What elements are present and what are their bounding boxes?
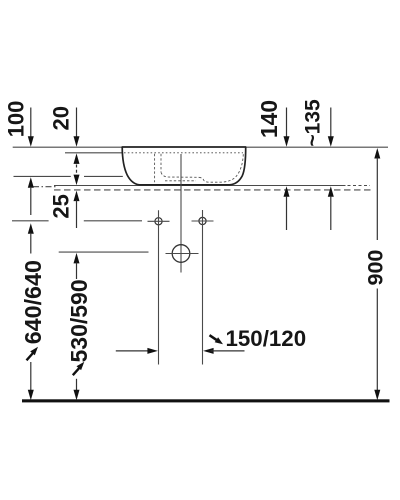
washbasin outer profile <box>122 147 246 185</box>
label 640/640 <box>20 260 46 344</box>
extension line F (530 level) <box>59 251 149 253</box>
dimension 25 lower arrow (up at dashed line) <box>74 191 80 228</box>
svg-text:25: 25 <box>49 194 74 218</box>
dimension 140 bottom arrow (up at countertop) <box>284 186 290 230</box>
dimension 150/120 left line with right arrow <box>116 348 158 354</box>
faucet hole circle 1 <box>148 210 170 364</box>
svg-text:140: 140 <box>256 100 282 138</box>
dimension 900 bottom line (down at floor) <box>374 289 380 401</box>
label 900 <box>364 250 388 286</box>
svg-text:100: 100 <box>4 101 29 138</box>
label ~135 <box>302 99 325 147</box>
svg-text:20: 20 <box>49 106 74 130</box>
dimension 530/590 bottom arrow (down at floor) <box>74 379 80 400</box>
basin hidden inner wall right <box>199 154 243 182</box>
svg-text:640/640: 640/640 <box>20 260 46 344</box>
dimension 20 line with down arrow <box>74 108 80 147</box>
label 150/120 <box>226 326 307 351</box>
basin hidden inner bottom shelf <box>161 172 199 177</box>
countertop surface solid line <box>54 185 370 187</box>
extension line A left (rim top level) <box>13 146 123 148</box>
svg-text:530/590: 530/590 <box>66 279 92 362</box>
diagonal arrow for 150/120 <box>210 335 224 344</box>
label 25 <box>49 194 74 218</box>
label 140 <box>256 100 282 138</box>
dimension 640/640 top arrow (up at line E) <box>28 223 34 253</box>
dimension ~135 line with down arrow <box>328 108 334 147</box>
svg-text:900: 900 <box>364 250 388 286</box>
countertop dash-dot centerline left <box>33 186 58 188</box>
dimension 900 top arrow (up at rim line) <box>374 148 380 240</box>
extension line B (inner rim level) <box>65 152 123 154</box>
svg-text:150/120: 150/120 <box>226 326 307 351</box>
dimension 140 line with down arrow <box>284 108 290 147</box>
label 20 <box>49 106 74 130</box>
dimension 640/640 bottom arrow (down at floor) <box>28 362 34 400</box>
dimension 530/590 top arrow (up at line F) <box>74 253 80 279</box>
basin hidden overflow vertical 2 <box>160 154 162 173</box>
svg-text:~135: ~135 <box>302 99 325 147</box>
extension line D (100 below rim) <box>14 175 123 177</box>
basin inner rim dotted line <box>124 152 243 154</box>
dimension 20 lower arrow pair (up at B, down at countertop) <box>74 153 80 185</box>
countertop underside dashed line <box>54 189 371 191</box>
drain hole circle <box>166 245 199 263</box>
basin hidden overflow vertical 1 <box>154 154 156 183</box>
dimension 150/120 right line with left arrow <box>203 348 244 354</box>
faucet hole circle 2 <box>192 210 214 365</box>
label 530/590 <box>66 279 92 362</box>
label 100 <box>4 101 29 138</box>
diagonal arrow under 640/640 <box>27 347 39 361</box>
dimension 100 line with down arrow <box>28 108 34 147</box>
extension line E (640 level) <box>12 220 142 222</box>
dimension ~135 bottom arrow (up at countertop) <box>328 186 334 230</box>
basin hidden drain recess <box>165 180 196 182</box>
floor line <box>22 399 390 402</box>
drain centerline <box>180 154 182 273</box>
extension line A right (rim top level) <box>246 146 389 148</box>
dimension 100 bottom arrow (up at line D) <box>28 177 34 215</box>
diagonal arrow under 530/590 <box>73 362 85 376</box>
